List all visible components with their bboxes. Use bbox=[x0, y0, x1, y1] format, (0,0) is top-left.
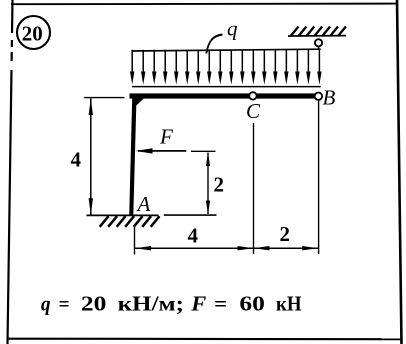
svg-text:2: 2 bbox=[280, 222, 291, 246]
svg-text:=: = bbox=[214, 291, 227, 315]
svg-text:20: 20 bbox=[22, 21, 43, 45]
svg-text:q: q bbox=[227, 16, 238, 40]
svg-text:2: 2 bbox=[214, 173, 225, 197]
svg-text:F: F bbox=[159, 124, 173, 148]
svg-text:4: 4 bbox=[188, 224, 199, 248]
svg-text:F: F bbox=[190, 291, 206, 315]
svg-text:B: B bbox=[323, 85, 336, 109]
svg-text:20: 20 bbox=[81, 291, 107, 315]
svg-text:A: A bbox=[136, 192, 151, 216]
svg-text:C: C bbox=[246, 99, 261, 123]
svg-text:q: q bbox=[41, 291, 51, 315]
svg-text:4: 4 bbox=[71, 148, 82, 172]
svg-text:кН/м;: кН/м; bbox=[118, 291, 184, 315]
svg-text:кН: кН bbox=[276, 291, 302, 315]
svg-text:60: 60 bbox=[239, 291, 265, 315]
svg-text:=: = bbox=[59, 291, 70, 315]
